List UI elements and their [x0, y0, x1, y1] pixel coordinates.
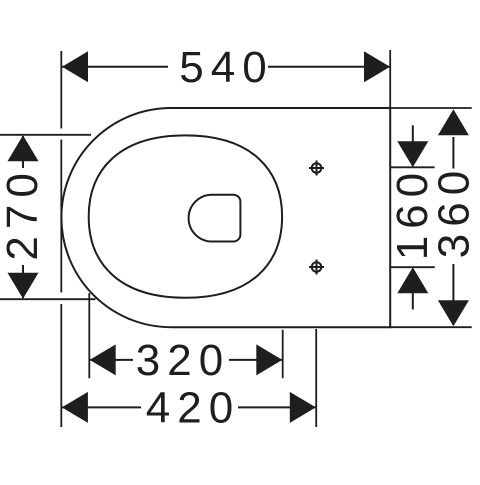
- drain outline: [189, 195, 241, 242]
- svg-text:270: 270: [0, 166, 47, 260]
- svg-text:320: 320: [136, 336, 230, 385]
- arrowhead 540 right: [364, 51, 390, 82]
- dimension tail 160 top: [412, 125, 414, 143]
- tick line at bottom fixing hole level (160): [390, 266, 435, 268]
- arrowhead 420 left: [62, 392, 88, 423]
- dimension line 320: [90, 359, 283, 361]
- bowl rim: [89, 135, 282, 297]
- arrowhead 360 up: [438, 109, 469, 135]
- tick line at top fixing hole level (160): [390, 166, 434, 168]
- arrowhead 360 down: [438, 300, 469, 326]
- arrowhead 270 up: [8, 135, 39, 161]
- extension line front-left (shared by 540 and 420): [60, 51, 62, 427]
- dimension tail 360 top: [452, 137, 454, 169]
- extension line bottom of bowl (270): [0, 298, 96, 300]
- extension line bowl right (320): [282, 330, 284, 378]
- extension line rear top (360): [390, 107, 472, 109]
- arrowhead 420 right: [290, 392, 316, 423]
- arrowhead 160 down: [397, 141, 428, 167]
- extension line rear bottom (360): [390, 326, 472, 328]
- arrowhead 270 down: [8, 273, 39, 299]
- dimension line 270: [22, 136, 24, 298]
- extension line hole axis (420): [315, 329, 317, 427]
- arrowhead 320 right: [256, 344, 282, 375]
- arrowhead 540 left: [62, 51, 88, 82]
- fixing hole bottom: [309, 260, 324, 275]
- dimension tail 160 bottom: [412, 292, 414, 310]
- dimension line 540: [62, 66, 390, 68]
- dimension tail 360 bottom: [452, 264, 454, 301]
- extension line rear (540): [389, 50, 391, 108]
- toilet body outline: [61, 108, 390, 327]
- svg-text:360: 360: [430, 164, 479, 258]
- svg-text:540: 540: [179, 43, 273, 92]
- extension line top of bowl (270): [0, 134, 91, 136]
- fixing hole top: [309, 161, 324, 176]
- arrowhead 320 left: [90, 344, 116, 375]
- svg-text:420: 420: [146, 384, 240, 433]
- arrowhead 160 up: [397, 267, 428, 293]
- dimension line 420: [62, 406, 316, 408]
- extension line bowl left (320): [88, 293, 90, 378]
